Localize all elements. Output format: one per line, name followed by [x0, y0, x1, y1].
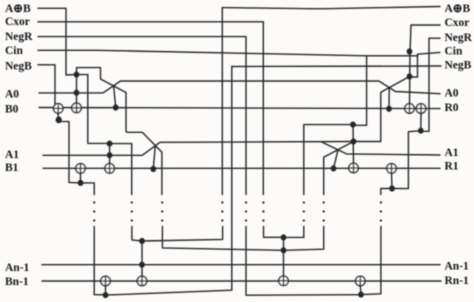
svg-text:A⊕B: A⊕B — [445, 3, 471, 15]
xor Bn-1 chain — [137, 276, 147, 286]
wire col1-left feed — [110, 144, 132, 195]
wire NegR-left upper — [38, 37, 246, 195]
xor B0 NegB — [53, 104, 63, 114]
node NegR bitn1 — [358, 292, 364, 298]
wire NegR-right low — [381, 189, 392, 195]
wire NegB-right label — [232, 65, 441, 68]
svg-text:R1: R1 — [445, 161, 459, 173]
svg-text:Rn-1: Rn-1 — [445, 275, 470, 287]
wire ellipsis x=263 — [262, 201, 264, 203]
wire stem pinwheel0-right — [388, 88, 390, 109]
node bit0 col top — [74, 72, 80, 78]
xor R0 NegR — [416, 104, 426, 114]
wire bit1 column right — [352, 125, 355, 164]
wire A1-left and long y142 — [43, 142, 354, 156]
wire stem pinwheel0-left — [114, 86, 116, 108]
svg-text:Bn-1: Bn-1 — [5, 276, 29, 288]
wire NegB bottom return — [106, 67, 232, 296]
wire col n-1 left — [141, 241, 143, 276]
wire Cxor-left upper — [38, 22, 263, 195]
wire Bn-1-Rn-1 rail — [42, 280, 441, 282]
wire NegR-right upper — [421, 38, 440, 131]
svg-text:A1: A1 — [5, 149, 19, 161]
wire x131 chain lower — [132, 227, 142, 242]
wire ellipsis x=246 — [245, 201, 247, 203]
wire Cin-left — [38, 50, 418, 77]
wire x323 chain lower — [284, 227, 324, 251]
node dotB — [281, 247, 287, 253]
wire A1-right branch — [321, 142, 440, 155]
wire ellipsis x=381 — [380, 201, 382, 203]
wire chain col0-col1 left — [77, 75, 109, 144]
node NegR bit1 — [389, 185, 395, 191]
node NegB bitn1 — [103, 292, 109, 298]
wire NegB-left — [38, 65, 55, 104]
svg-text:An-1: An-1 — [445, 260, 470, 272]
wire B0-R0 rail — [39, 108, 440, 109]
node coln1-left top — [139, 238, 145, 244]
svg-text:Cxor: Cxor — [445, 17, 470, 29]
node col1-right top — [350, 122, 356, 128]
svg-text:An-1: An-1 — [5, 262, 30, 274]
svg-text:R0: R0 — [445, 102, 459, 114]
svg-text:Cin: Cin — [445, 46, 464, 58]
wire NegR-right mid — [392, 131, 421, 189]
wire bit0 column left — [76, 75, 78, 104]
xor B1 NegB — [76, 164, 86, 174]
wire Cin-right label — [418, 52, 441, 56]
xor B0 chain — [72, 103, 82, 113]
wire NegB chain bit0-bit1 — [58, 113, 81, 183]
wire A+B-right chain lower — [142, 227, 223, 242]
svg-text:A0: A0 — [445, 88, 459, 100]
wire col n-1 right — [283, 237, 285, 276]
node dotA — [281, 234, 287, 240]
wire R0 xor2 stub — [420, 113, 422, 131]
xor Rn-1 NegR — [356, 276, 366, 286]
wire A+B-right label — [222, 7, 440, 9]
wire ellipsis x=94 — [93, 201, 95, 203]
node col1-right mid — [351, 138, 357, 144]
wire limb-d0 lower (to dot-B) — [162, 227, 283, 251]
xor Bn-1 NegB — [101, 276, 111, 286]
svg-text:B1: B1 — [5, 162, 19, 174]
svg-text:NegB: NegB — [445, 60, 472, 72]
wire A+B-right chain upper — [221, 8, 223, 195]
svg-text:A0: A0 — [5, 89, 19, 101]
wire A0-left and long y81 — [39, 81, 440, 94]
wire A+B-left — [38, 8, 77, 75]
node NegB bit1 — [78, 180, 84, 186]
xor R0 chain — [405, 104, 415, 114]
wire pinwheel0-left c/d limbs — [77, 68, 162, 195]
wire ellipsis x=162 — [161, 201, 163, 203]
wire stem pinwheel1-left — [153, 146, 155, 169]
svg-text:B0: B0 — [5, 104, 19, 116]
node B1 stem — [150, 166, 156, 172]
node NegB bit0 — [56, 117, 62, 124]
wire NegR-left lower — [246, 227, 361, 296]
node B0 stem — [113, 104, 119, 110]
wire ellipsis x=222 — [221, 201, 223, 203]
wire NegB chain bit1 stub — [81, 173, 95, 195]
wire B1-R1 rail — [43, 167, 440, 169]
wire NegR-right bottom — [361, 227, 381, 295]
node bit0 col on A0 — [74, 90, 80, 96]
wire ellipsis x=304 — [303, 201, 305, 203]
svg-text:A1: A1 — [445, 147, 459, 159]
node col1-left top — [107, 141, 113, 147]
svg-text:Cxor: Cxor — [5, 16, 30, 28]
xor R1 NegR — [387, 164, 397, 174]
wire stem pinwheel1-right — [334, 150, 339, 169]
node coln1-left on An-1 — [139, 262, 145, 268]
xor R1 chain — [349, 163, 359, 173]
node R0 col mid — [407, 73, 413, 79]
node R1 stem — [331, 165, 337, 171]
node col1-left on A1 — [107, 152, 113, 158]
wire ellipsis x=324 — [323, 201, 325, 203]
wire col1-right feed upper — [304, 125, 353, 195]
xor B1 chain — [105, 164, 115, 174]
xor Rn-1 chain — [279, 276, 289, 286]
wire pinwheel1-right d limb — [324, 142, 354, 195]
wire An-1 rail — [42, 264, 440, 266]
svg-text:NegB: NegB — [5, 61, 32, 73]
wire NegB chain lower — [94, 227, 105, 295]
node R0 stem — [386, 106, 392, 112]
svg-text:Cin: Cin — [5, 45, 24, 57]
node Cxor-Cin right — [407, 48, 413, 54]
wire Cin chain to col1-right top — [353, 56, 367, 126]
wire ellipsis x=132 — [131, 201, 133, 203]
svg-text:NegR: NegR — [445, 32, 473, 44]
wire Rn-1 xor stub — [359, 286, 362, 295]
wire bit1 column left — [109, 144, 111, 164]
wire pinwheel0-right d limb — [354, 77, 410, 142]
wire Cxor-left lower — [264, 227, 284, 238]
svg-text:NegR: NegR — [5, 31, 33, 43]
node NegR bit0 — [418, 128, 424, 134]
wire R1 xor2 stub — [391, 173, 394, 189]
svg-text:A⊕B: A⊕B — [5, 3, 31, 15]
wire Cxor-right — [410, 25, 441, 104]
wire x303 chain lower — [284, 227, 304, 238]
